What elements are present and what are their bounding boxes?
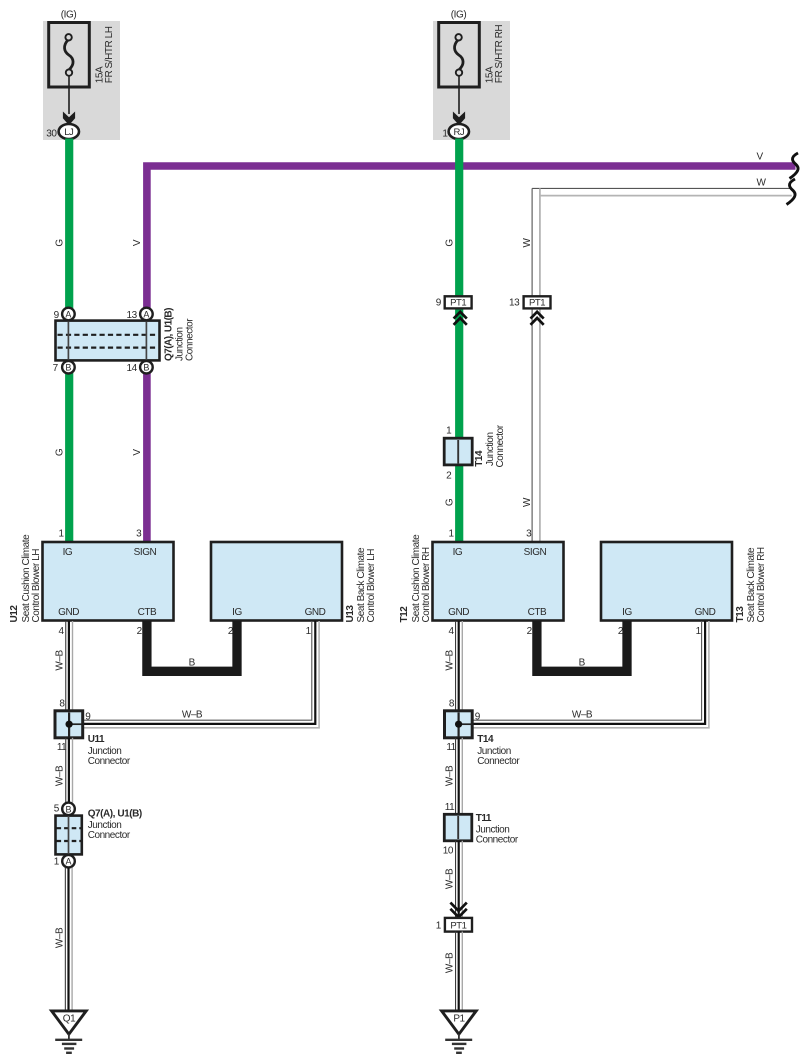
svg-text:3: 3 [526,529,532,540]
wire fuse output arrow [458,76,460,114]
wire W white: horizontal to off-page right [532,187,792,189]
shield/twist symbol below PT1 9 [454,312,467,325]
fuse service panel background [43,21,120,140]
svg-text:8: 8 [59,698,65,709]
svg-text:GND: GND [305,607,326,618]
svg-text:Connector: Connector [88,756,131,767]
node T14 junction dot [455,721,462,728]
svg-text:Control Blower LH: Control Blower LH [31,549,42,623]
svg-text:1: 1 [448,529,454,540]
svg-text:Control Blower RH: Control Blower RH [756,547,767,622]
wire G green RH from fuse RJ down to PT1 [455,139,463,297]
fuse service panel background [433,21,510,140]
svg-text:FR S/HTR LH: FR S/HTR LH [104,26,115,83]
svg-text:30: 30 [46,129,57,140]
svg-text:G: G [54,239,65,247]
wire W-B from PT1 to ground P1 [455,932,457,1010]
svg-text:W: W [522,238,533,248]
svg-text:13: 13 [126,310,137,321]
svg-text:PT1: PT1 [450,298,466,309]
wire W-B from T12 GND to T14 lower [455,621,457,711]
wire W-B from U13 GND down and left to U11 pin 9 [83,621,312,720]
fuse 15A FR S/HTR LH [49,23,90,88]
wire W white vertical from bus corner to PT1 13 [531,188,533,296]
svg-text:T13: T13 [735,606,746,623]
svg-text:W–B: W–B [54,650,65,671]
wire W-B from U12 GND to U11 [65,621,67,711]
svg-text:PT1: PT1 [529,298,545,309]
connector LJ [59,124,79,139]
svg-text:T12: T12 [399,606,410,623]
node U11 junction dot [66,721,73,728]
wire G green LH from junction to U12 IG [65,373,73,542]
svg-text:1: 1 [696,626,702,637]
junction connector U11 [55,711,83,738]
svg-text:9: 9 [54,310,60,321]
svg-text:V: V [132,449,143,456]
svg-text:2: 2 [446,470,452,481]
svg-text:2: 2 [137,626,143,637]
wire W-B from T13 GND down and left to T14 pin 9 [473,621,702,720]
svg-text:1: 1 [58,529,64,540]
svg-text:GND: GND [695,607,716,618]
svg-text:W–B: W–B [182,710,203,721]
svg-text:13: 13 [509,298,520,309]
svg-text:B: B [65,363,71,373]
wire break symbol on V [790,153,799,179]
svg-text:8: 8 [449,698,455,709]
svg-text:T11: T11 [476,813,492,824]
svg-text:CTB: CTB [138,607,157,618]
svg-text:A: A [143,309,149,319]
svg-text:1: 1 [446,426,452,437]
wire through junction at pin 9/7 [67,321,69,360]
shield/twist symbol above PT1 1 [450,903,466,918]
svg-text:1: 1 [436,920,442,931]
svg-text:U12: U12 [9,605,20,623]
svg-text:Control Blower LH: Control Blower LH [366,549,377,623]
svg-text:B: B [143,363,149,373]
svg-text:PT1: PT1 [450,920,466,931]
svg-text:B: B [65,804,71,814]
svg-text:A: A [65,309,71,319]
svg-text:GND: GND [58,607,79,618]
svg-text:Connector: Connector [184,318,195,361]
svg-text:7: 7 [53,363,59,374]
svg-text:A: A [65,857,71,867]
svg-text:FR S/HTR RH: FR S/HTR RH [494,25,505,84]
svg-text:W–B: W–B [444,650,455,671]
svg-text:10: 10 [443,846,454,857]
svg-text:IG: IG [63,547,73,558]
wire fuse output arrow [68,76,70,114]
wire W white vertical PT1 to T12 SIGN [531,308,533,542]
svg-text:IG: IG [622,607,632,618]
wire G green LH from fuse LJ to junction connector [65,139,73,309]
svg-text:W–B: W–B [54,765,65,786]
svg-text:CTB: CTB [528,607,547,618]
svg-text:W–B: W–B [572,710,593,721]
svg-text:11: 11 [445,802,455,813]
svg-text:RJ: RJ [453,127,464,138]
wire B black U12 CTB to U13 IG [147,621,237,671]
svg-text:Q1: Q1 [63,1014,76,1025]
wire V purple: horizontal bus to off-page right [147,166,796,308]
svg-text:9: 9 [475,712,481,723]
wire break symbol on W [787,179,796,205]
svg-text:9: 9 [85,712,91,723]
svg-text:W: W [757,178,767,189]
svg-text:G: G [54,448,65,456]
wire G green RH T14 to T12 IG [455,464,463,542]
svg-text:G: G [445,239,456,247]
svg-text:Connector: Connector [476,834,519,845]
component U12 Seat Cushion Climate Control Blower LH [43,542,174,621]
svg-text:V: V [757,152,764,163]
wire through junction at pin 13/14 [145,321,147,360]
svg-text:B: B [189,658,196,669]
wire W-B from T14 to T11 [455,738,457,815]
junction connector T14 lower [445,711,473,738]
wire W-B from U11 to lower junction [65,738,67,803]
svg-text:Control Blower RH: Control Blower RH [421,547,432,622]
svg-text:14: 14 [126,363,137,374]
svg-text:5: 5 [54,804,60,815]
svg-text:W–B: W–B [444,765,455,786]
svg-text:G: G [445,498,456,506]
svg-text:SIGN: SIGN [134,547,157,558]
svg-text:Connector: Connector [477,756,520,767]
svg-text:(IG): (IG) [451,10,467,21]
svg-text:W: W [522,497,533,507]
svg-text:Q7(A), U1(B): Q7(A), U1(B) [164,308,175,361]
svg-text:W–B: W–B [54,927,65,948]
wire B black T12 CTB to T13 IG [537,621,627,671]
junction connector T14 on green wire [444,438,472,465]
component T12 Seat Cushion Climate Control Blower RH [433,542,564,621]
svg-text:Connector: Connector [495,424,506,467]
component U13 Seat Back Climate Control Blower LH [211,542,342,621]
ground Q1 [52,1011,87,1034]
svg-text:Connector: Connector [88,830,131,841]
svg-text:IG: IG [453,547,463,558]
junction connector Q7(A), U1(B) top [56,321,160,361]
svg-text:U13: U13 [345,605,356,623]
svg-text:3: 3 [136,529,142,540]
connector RJ [449,124,469,139]
svg-text:GND: GND [448,607,469,618]
svg-text:T14: T14 [474,450,485,467]
component T13 Seat Back Climate Control Blower RH [601,542,732,621]
ground P1 [442,1011,477,1034]
svg-text:V: V [132,239,143,246]
wire W-B from T11 to PT1 [455,841,457,918]
svg-text:4: 4 [448,626,454,637]
svg-text:B: B [579,658,586,669]
svg-text:P1: P1 [453,1014,465,1025]
svg-text:1: 1 [54,857,60,868]
svg-text:SIGN: SIGN [524,547,547,558]
wire G green RH PT1 to T14 [455,308,463,439]
svg-text:IG: IG [232,607,242,618]
svg-text:Q7(A), U1(B): Q7(A), U1(B) [88,809,142,820]
svg-text:U11: U11 [88,734,105,745]
svg-text:T14: T14 [477,734,494,745]
wire W-B from junction A to ground Q1 [64,868,66,1010]
svg-text:W–B: W–B [444,952,455,973]
fuse 15A FR S/HTR RH [439,23,480,88]
svg-text:4: 4 [58,626,64,637]
svg-text:(IG): (IG) [61,10,77,21]
svg-text:9: 9 [436,298,442,309]
svg-text:W–B: W–B [444,868,455,889]
wire V purple from junction to U12 SIGN [143,373,151,542]
svg-text:1: 1 [306,626,312,637]
svg-text:2: 2 [527,626,533,637]
svg-text:LJ: LJ [64,127,74,138]
shield/twist symbol below PT1 13 [531,312,544,325]
